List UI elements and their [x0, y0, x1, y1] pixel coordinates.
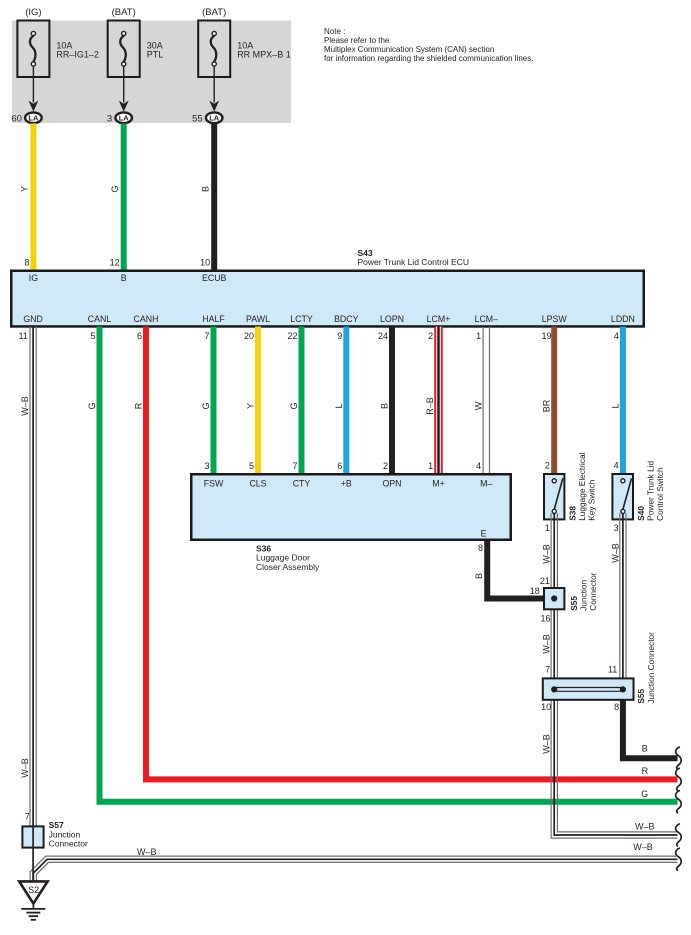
svg-text:LPSW: LPSW: [542, 314, 568, 324]
svg-text:S55: S55: [569, 596, 579, 611]
svg-text:Control Switch: Control Switch: [655, 467, 665, 521]
svg-text:4: 4: [614, 331, 619, 341]
svg-text:LCTY: LCTY: [290, 314, 313, 324]
svg-text:3: 3: [614, 523, 619, 533]
svg-text:4: 4: [614, 461, 619, 471]
svg-text:5: 5: [90, 331, 95, 341]
svg-text:G: G: [201, 402, 211, 409]
svg-text:S40: S40: [636, 506, 646, 521]
svg-text:R–B: R–B: [425, 397, 435, 415]
svg-text:11: 11: [19, 331, 28, 341]
svg-text:B: B: [201, 186, 211, 192]
svg-text:LA: LA: [28, 114, 39, 123]
svg-text:W–B: W–B: [542, 734, 552, 754]
svg-text:R: R: [642, 766, 649, 776]
svg-text:21: 21: [540, 576, 550, 586]
svg-text:PAWL: PAWL: [246, 314, 270, 324]
svg-text:8: 8: [24, 257, 29, 267]
svg-text:Note :: Note :: [324, 27, 345, 36]
svg-text:+B: +B: [341, 479, 352, 489]
svg-text:Y: Y: [20, 186, 30, 192]
svg-text:W–B: W–B: [542, 634, 552, 654]
svg-text:19: 19: [541, 331, 551, 341]
svg-text:Connector: Connector: [588, 572, 598, 611]
svg-text:W–B: W–B: [20, 396, 30, 416]
svg-text:11: 11: [608, 665, 617, 675]
svg-text:1: 1: [545, 523, 550, 533]
svg-text:Closer Assembly: Closer Assembly: [256, 562, 320, 572]
svg-text:22: 22: [287, 331, 297, 341]
svg-text:Power Trunk Lid Control ECU: Power Trunk Lid Control ECU: [358, 257, 470, 267]
svg-text:CANL: CANL: [88, 314, 112, 324]
svg-text:FSW: FSW: [204, 479, 224, 489]
svg-text:Multiplex Communication System: Multiplex Communication System (CAN) sec…: [324, 45, 494, 54]
svg-text:G: G: [289, 402, 299, 409]
svg-text:OPN: OPN: [382, 479, 401, 489]
svg-text:6: 6: [137, 331, 142, 341]
svg-text:W–B: W–B: [635, 822, 655, 832]
svg-text:Connector: Connector: [49, 839, 88, 849]
svg-text:LDDN: LDDN: [611, 314, 635, 324]
svg-text:10: 10: [200, 257, 210, 267]
svg-text:24: 24: [378, 331, 388, 341]
svg-text:8: 8: [478, 543, 483, 553]
svg-text:(BAT): (BAT): [202, 7, 226, 18]
svg-text:R: R: [134, 402, 144, 409]
svg-text:B: B: [121, 273, 127, 283]
svg-text:CLS: CLS: [249, 479, 266, 489]
svg-text:18: 18: [530, 586, 540, 596]
svg-text:2: 2: [428, 331, 433, 341]
svg-text:G: G: [110, 185, 120, 192]
svg-text:Junction: Junction: [578, 580, 588, 611]
svg-text:S2: S2: [28, 885, 39, 895]
svg-text:M–: M–: [480, 479, 492, 489]
svg-text:7: 7: [204, 331, 209, 341]
svg-text:CANH: CANH: [134, 314, 159, 324]
svg-text:1: 1: [476, 331, 481, 341]
svg-text:BDCY: BDCY: [334, 314, 359, 324]
svg-text:8: 8: [614, 702, 619, 712]
svg-text:7: 7: [292, 461, 297, 471]
svg-text:W–B: W–B: [542, 544, 552, 564]
svg-text:L: L: [334, 403, 344, 408]
svg-text:GND: GND: [23, 314, 43, 324]
svg-text:W: W: [474, 401, 484, 410]
svg-text:7: 7: [545, 665, 550, 675]
svg-text:LOPN: LOPN: [380, 314, 404, 324]
svg-text:9: 9: [337, 331, 342, 341]
svg-text:Power Trunk Lid: Power Trunk Lid: [646, 460, 656, 520]
svg-text:RR–IG1–2: RR–IG1–2: [56, 50, 99, 60]
svg-text:G: G: [87, 402, 97, 409]
svg-text:Please refer to the: Please refer to the: [324, 36, 390, 45]
svg-text:5: 5: [249, 461, 254, 471]
svg-text:W–B: W–B: [633, 842, 653, 852]
svg-text:6: 6: [337, 461, 342, 471]
svg-text:Junction Connector: Junction Connector: [646, 632, 656, 704]
svg-text:S55: S55: [636, 688, 646, 703]
svg-text:RR MPX–B 1: RR MPX–B 1: [237, 50, 291, 60]
svg-text:E: E: [481, 529, 487, 539]
svg-text:HALF: HALF: [202, 314, 225, 324]
svg-text:3: 3: [204, 461, 209, 471]
svg-text:PTL: PTL: [147, 50, 164, 60]
svg-text:4: 4: [476, 461, 481, 471]
svg-text:B: B: [474, 573, 484, 579]
svg-text:L: L: [610, 403, 620, 408]
svg-text:10: 10: [541, 702, 551, 712]
svg-text:Key Switch: Key Switch: [586, 479, 596, 520]
svg-text:20: 20: [244, 331, 254, 341]
svg-text:LCM–: LCM–: [475, 314, 499, 324]
svg-text:LA: LA: [209, 114, 220, 123]
svg-text:M+: M+: [432, 479, 444, 489]
svg-text:BR: BR: [542, 399, 552, 412]
svg-text:2: 2: [545, 461, 550, 471]
svg-text:12: 12: [110, 257, 120, 267]
svg-text:B: B: [642, 743, 648, 753]
svg-text:Y: Y: [246, 403, 256, 409]
svg-text:W–B: W–B: [20, 758, 30, 778]
svg-text:1: 1: [428, 461, 433, 471]
svg-text:LA: LA: [119, 114, 130, 123]
svg-text:IG: IG: [29, 273, 38, 283]
svg-text:B: B: [380, 403, 390, 409]
svg-text:LCM+: LCM+: [427, 314, 451, 324]
svg-text:S38: S38: [567, 506, 577, 521]
svg-text:Luggage Electrical: Luggage Electrical: [577, 452, 587, 520]
svg-text:55: 55: [192, 113, 203, 124]
svg-text:60: 60: [11, 113, 22, 124]
svg-text:(IG): (IG): [25, 7, 41, 18]
svg-text:for information regarding the: for information regarding the shielded c…: [324, 54, 533, 63]
svg-text:ECUB: ECUB: [202, 273, 227, 283]
svg-text:W–B: W–B: [610, 543, 620, 563]
svg-text:G: G: [641, 789, 648, 799]
svg-text:7: 7: [25, 812, 30, 822]
svg-text:CTY: CTY: [293, 479, 311, 489]
svg-text:3: 3: [107, 113, 112, 124]
svg-text:2: 2: [383, 461, 388, 471]
svg-text:16: 16: [540, 614, 550, 624]
svg-text:(BAT): (BAT): [112, 7, 136, 18]
